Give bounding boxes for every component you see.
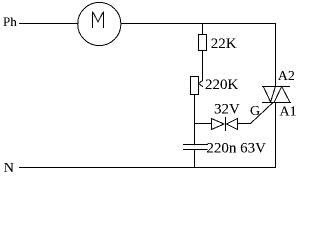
svg-text:220K: 220K bbox=[205, 77, 239, 93]
svg-text:A1: A1 bbox=[280, 105, 297, 120]
svg-text:G: G bbox=[250, 104, 260, 119]
svg-text:22K: 22K bbox=[211, 36, 237, 52]
svg-text:32V: 32V bbox=[214, 102, 240, 118]
svg-text:Ph: Ph bbox=[3, 14, 17, 29]
svg-text:N: N bbox=[4, 161, 14, 176]
svg-text:A2: A2 bbox=[278, 69, 295, 84]
svg-text:220n 63V: 220n 63V bbox=[206, 141, 266, 157]
